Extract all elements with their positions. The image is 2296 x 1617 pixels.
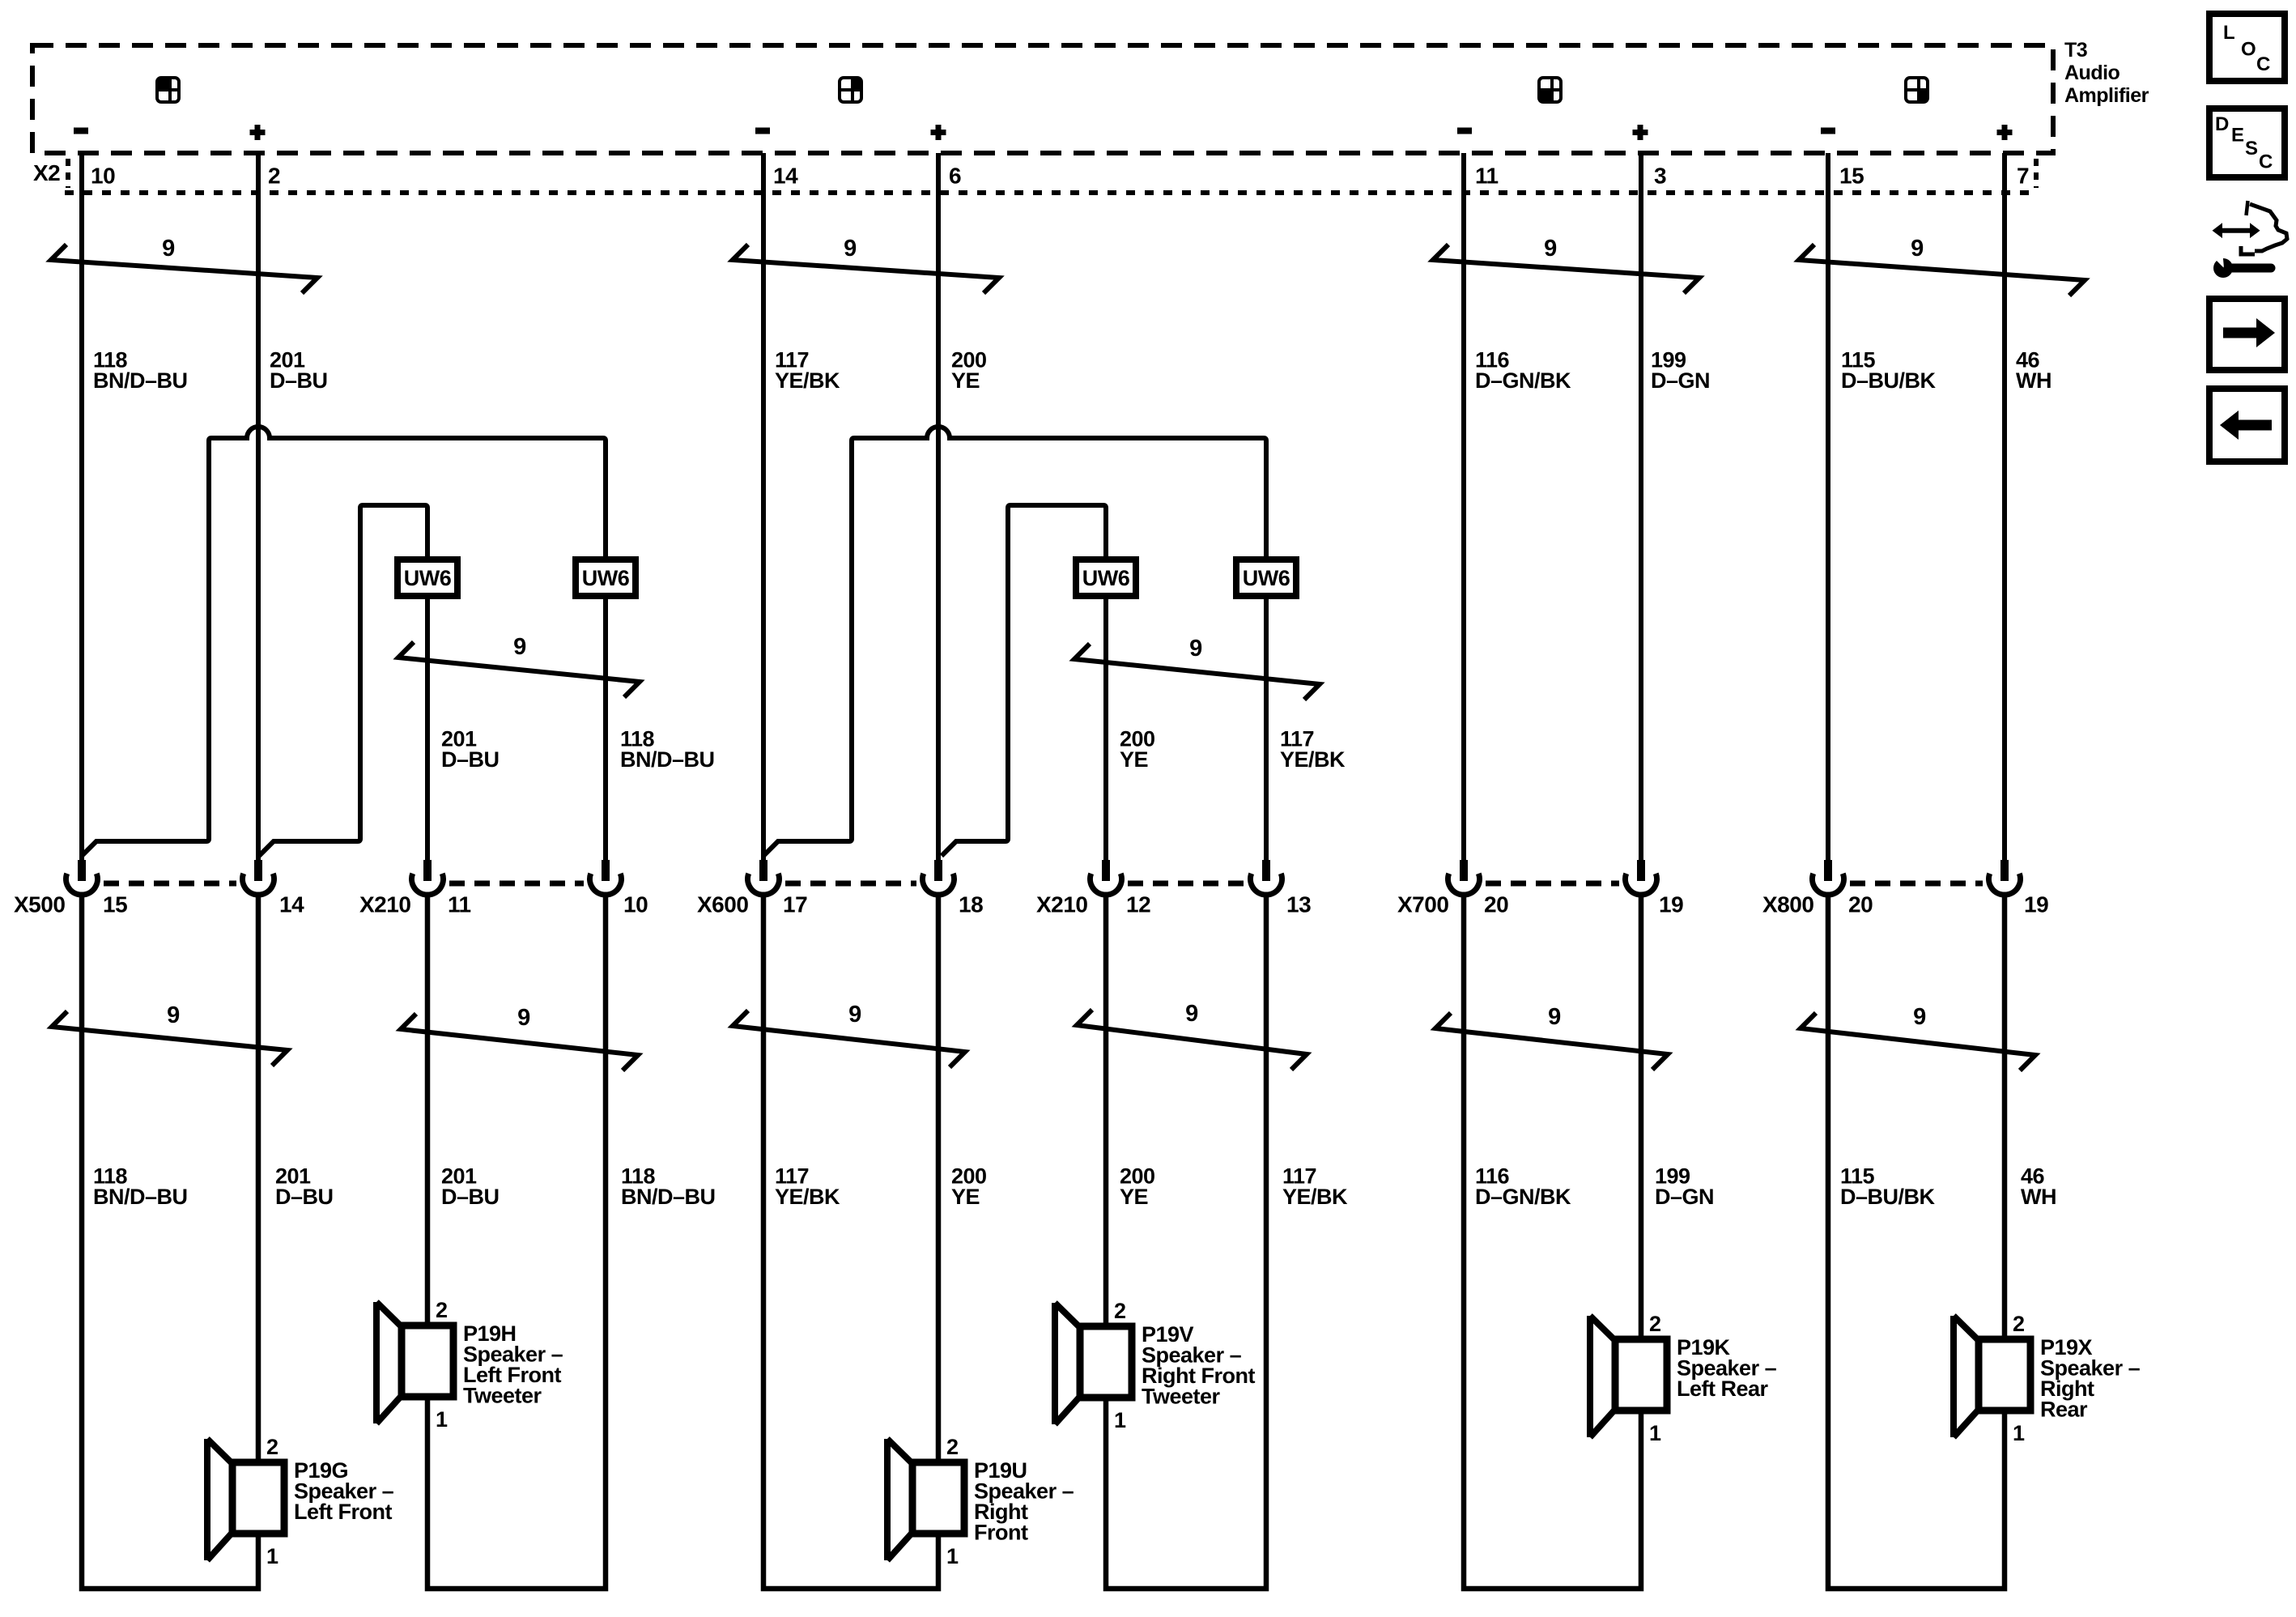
svg-text:18: 18 [959, 892, 983, 917]
wire 115 D-BU/BK from X2 pin 15 [1826, 153, 1830, 860]
svg-text:D: D [2215, 113, 2229, 135]
minus terminal LF [74, 128, 88, 134]
connector terminal X210 pin 10 [590, 860, 622, 895]
twisted pair marker 9 (X210 11/10) [401, 1005, 638, 1070]
wire label 200 YE (lower) [1120, 1164, 1155, 1210]
branch wire 117 YE/BK outer loop to UW6 (hops over 200 wire) [763, 427, 1266, 860]
svg-text:UW6: UW6 [404, 566, 452, 590]
connector terminal X800 pin 20 [1813, 860, 1844, 895]
option code box UW6 (200 YE right front tweeter wire) [1076, 560, 1136, 596]
double-headed arrow icon [2213, 223, 2260, 238]
svg-text:X210: X210 [359, 892, 410, 917]
speaker P19X name label [2040, 1335, 2141, 1422]
wire label 118 BN/D–BU (lower) [621, 1164, 716, 1210]
svg-text:BN/D–BU: BN/D–BU [93, 1185, 188, 1209]
wire 46 WH from X2 pin 7 [2002, 153, 2007, 860]
wire 117 YE/BK from X2 pin 14 [761, 153, 766, 860]
svg-text:YE/BK: YE/BK [775, 1185, 840, 1209]
svg-text:D–BU: D–BU [275, 1185, 334, 1209]
svg-text:9: 9 [1913, 1004, 1926, 1030]
wire label 117 YE/BK (lower) [1282, 1164, 1348, 1210]
connector X210 front-right dashed interface line [1128, 881, 1244, 887]
connector terminal X600 pin 17 [748, 860, 780, 895]
speaker P19U symbol [887, 1439, 964, 1560]
connector terminal X500 pin 14 [243, 860, 274, 895]
twisted pair marker 9 (UW6 right front) [1074, 636, 1320, 700]
svg-text:Audio: Audio [2064, 62, 2120, 84]
svg-text:Front: Front [974, 1521, 1028, 1545]
svg-text:20: 20 [1848, 892, 1873, 917]
wire label 201 D–BU (tweeter branch) [441, 727, 500, 772]
svg-text:D–BU: D–BU [441, 747, 500, 772]
svg-text:D–BU/BK: D–BU/BK [1840, 1185, 1936, 1209]
wire label 118 BN/D–BU (tweeter branch) [620, 727, 715, 772]
svg-text:WH: WH [2021, 1185, 2056, 1209]
svg-text:WH: WH [2016, 368, 2052, 393]
wire label 201 D–BU (lower) [441, 1164, 500, 1210]
svg-text:X800: X800 [1762, 892, 1813, 917]
svg-text:YE: YE [951, 368, 980, 393]
svg-text:BN/D–BU: BN/D–BU [93, 368, 188, 393]
speaker P19H symbol [376, 1302, 453, 1423]
wire 201 D-BU X210-11 to P19H pin 2 [425, 894, 431, 1326]
wire label 199 D–GN (lower) [1655, 1164, 1714, 1210]
svg-text:YE/BK: YE/BK [1282, 1185, 1348, 1209]
speaker P19U name label [974, 1458, 1074, 1545]
svg-text:9: 9 [1189, 636, 1202, 662]
wire label 201 D–BU (upper) [270, 348, 328, 394]
option code box UW6 (201 D-BU left front tweeter wire) [398, 560, 457, 596]
connector X700 dashed interface line [1486, 881, 1619, 887]
svg-text:D–GN: D–GN [1655, 1185, 1714, 1209]
svg-text:9: 9 [844, 236, 857, 262]
svg-text:2: 2 [1649, 1312, 1661, 1336]
minus terminal RF [755, 128, 770, 134]
twisted pair marker 9 (X2 10/2) [51, 236, 317, 293]
svg-text:9: 9 [162, 236, 175, 262]
svg-text:D–BU: D–BU [441, 1185, 500, 1209]
svg-text:YE: YE [1120, 747, 1148, 772]
connector terminal X210 pin 11 [412, 860, 444, 895]
svg-text:9: 9 [848, 1002, 861, 1028]
svg-text:Tweeter: Tweeter [1142, 1385, 1221, 1409]
wire 118 BN/D-BU X210-10 down and return to P19H pin 1 [427, 894, 606, 1589]
svg-text:E: E [2231, 125, 2244, 147]
speaker P19V name label [1142, 1322, 1255, 1409]
svg-text:2: 2 [436, 1298, 448, 1322]
branch wire 118 BN/D-BU outer loop to UW6 (hops over 201 wire) [82, 427, 606, 860]
wire label 46 WH (lower) [2021, 1164, 2056, 1210]
wire 116 D-GN/BK from X2 pin 11 [1461, 153, 1466, 860]
svg-text:7: 7 [2017, 164, 2029, 189]
svg-text:2: 2 [946, 1435, 959, 1459]
svg-text:2: 2 [1114, 1299, 1126, 1323]
minus terminal RR [1821, 128, 1835, 134]
wire 201 D-BU from X2 pin 2 [256, 153, 261, 860]
minus terminal LR [1457, 128, 1472, 134]
connector X2 dotted interface line [65, 159, 2039, 193]
wire 199 D-GN X700-19 to P19K pin 2 [1639, 894, 1644, 1339]
svg-text:17: 17 [783, 892, 807, 917]
svg-text:X600: X600 [697, 892, 748, 917]
forward arrow box [2209, 299, 2285, 370]
connector terminal X600 pin 18 [923, 860, 955, 895]
connector X500 dashed interface line [104, 881, 236, 887]
channel symbol right front (top-right quadrant filled) [840, 78, 861, 102]
svg-text:12: 12 [1126, 892, 1150, 917]
wire 117 YE/BK X600-17 down and return to P19U pin 1 [763, 894, 938, 1589]
svg-text:C: C [2259, 151, 2273, 173]
wire 116 D-GN/BK X700-20 down and return to P19K pin 1 [1464, 894, 1641, 1589]
wire label 201 D–BU (lower) [275, 1164, 334, 1210]
speaker P19X symbol [1954, 1316, 2030, 1437]
connector terminal X500 pin 15 [66, 860, 98, 895]
twisted pair marker 9 (X700 20/19) [1435, 1004, 1668, 1070]
svg-text:BN/D–BU: BN/D–BU [621, 1185, 716, 1209]
plus terminal RR [1997, 125, 2013, 140]
svg-text:1: 1 [2013, 1421, 2025, 1445]
wire 46 WH X800-19 to P19X pin 2 [2002, 894, 2008, 1339]
wire label 118 BN/D–BU (upper) [93, 348, 188, 394]
svg-text:UW6: UW6 [582, 566, 630, 590]
wire label 117 YE/BK (upper) [775, 348, 840, 394]
connector terminal X800 pin 19 [1989, 860, 2021, 895]
wire 117 YE/BK X210-13 down and return to P19V pin 1 [1106, 894, 1266, 1589]
speaker P19V symbol [1055, 1303, 1132, 1424]
svg-text:10: 10 [91, 164, 115, 189]
option code box UW6 (117 YE/BK right front tweeter wire) [1236, 560, 1296, 596]
wire label 200 YE (tweeter branch) [1120, 727, 1155, 772]
svg-text:14: 14 [279, 892, 304, 917]
svg-text:9: 9 [1548, 1004, 1561, 1030]
svg-text:15: 15 [1839, 164, 1864, 189]
option code box UW6 (118 BN/D-BU left front tweeter wire) [576, 560, 636, 596]
svg-text:YE/BK: YE/BK [1280, 747, 1346, 772]
svg-text:11: 11 [1475, 164, 1499, 189]
twisted pair marker 9 (X600 17/18) [733, 1002, 965, 1067]
twisted pair marker 9 (X2 14/6) [733, 236, 999, 293]
svg-text:1: 1 [1114, 1408, 1126, 1432]
connector terminal X210 pin 12 [1091, 860, 1122, 895]
svg-text:T3: T3 [2064, 39, 2087, 62]
connector terminal X700 pin 20 [1448, 860, 1480, 895]
svg-text:1: 1 [266, 1544, 278, 1568]
svg-text:X210: X210 [1036, 892, 1087, 917]
svg-text:Rear: Rear [2040, 1398, 2088, 1422]
wire 200 YE X210-12 to P19V pin 2 [1103, 894, 1109, 1326]
svg-text:2: 2 [2013, 1312, 2025, 1336]
wire 199 D-GN from X2 pin 3 [1639, 153, 1643, 860]
speaker P19G name label [294, 1458, 394, 1524]
plus terminal RF [931, 125, 946, 140]
wire label 118 BN/D–BU (lower) [93, 1164, 188, 1210]
wire label 116 D–GN/BK (upper) [1475, 348, 1571, 394]
wrench icon [2210, 249, 2271, 278]
svg-text:YE/BK: YE/BK [775, 368, 840, 393]
amplifier T3 name label [2064, 39, 2149, 107]
wire label 116 D–GN/BK (lower) [1475, 1164, 1571, 1210]
svg-text:9: 9 [513, 634, 526, 660]
twisted pair marker 9 (X800 20/19) [1801, 1004, 2035, 1070]
svg-text:9: 9 [1185, 1001, 1198, 1027]
wire label 46 WH (upper) [2016, 348, 2052, 394]
wire label 200 YE (upper) [951, 348, 987, 394]
svg-text:13: 13 [1286, 892, 1311, 917]
connector X600 dashed interface line [785, 881, 916, 887]
wire 201 D-BU X500-14 to P19G pin 2 [256, 894, 261, 1462]
svg-text:1: 1 [436, 1407, 448, 1432]
plus terminal LF [250, 125, 266, 140]
svg-text:19: 19 [1659, 892, 1683, 917]
connector terminal X700 pin 19 [1626, 860, 1657, 895]
wire label 117 YE/BK (tweeter branch) [1280, 727, 1346, 772]
svg-text:9: 9 [167, 1002, 180, 1028]
svg-text:2: 2 [268, 164, 280, 189]
svg-text:UW6: UW6 [1243, 566, 1290, 590]
wire label 199 D–GN (upper) [1651, 348, 1710, 394]
twisted pair marker 9 (UW6 left front) [398, 634, 640, 697]
twisted pair marker 9 (X210 12/13) [1077, 1001, 1307, 1070]
wire 118 BN/D-BU X500-15 down and return to P19G pin 1 [82, 894, 258, 1589]
svg-text:20: 20 [1484, 892, 1508, 917]
svg-text:10: 10 [623, 892, 648, 917]
svg-text:Left Rear: Left Rear [1677, 1377, 1769, 1401]
svg-text:1: 1 [946, 1544, 959, 1568]
svg-text:14: 14 [773, 164, 798, 189]
svg-text:6: 6 [949, 164, 961, 189]
svg-text:11: 11 [448, 892, 471, 917]
plus terminal LR [1633, 125, 1648, 140]
speaker P19K name label [1677, 1335, 1777, 1401]
branch wire 200 YE inner loop to UW6 [942, 505, 1106, 860]
svg-text:L: L [2223, 22, 2234, 44]
svg-text:BN/D–BU: BN/D–BU [620, 747, 715, 772]
svg-text:D–BU/BK: D–BU/BK [1841, 368, 1937, 393]
connector X210 front-left dashed interface line [449, 881, 584, 887]
svg-text:9: 9 [1544, 236, 1557, 262]
svg-text:15: 15 [103, 892, 127, 917]
svg-text:19: 19 [2024, 892, 2048, 917]
svg-text:X2: X2 [33, 160, 60, 185]
vehicle outline icon [2241, 201, 2287, 254]
back arrow box [2209, 389, 2285, 462]
svg-text:Amplifier: Amplifier [2064, 84, 2149, 107]
svg-text:9: 9 [517, 1005, 530, 1031]
speaker P19K symbol [1590, 1316, 1667, 1437]
svg-text:YE: YE [951, 1185, 980, 1209]
svg-text:D–GN/BK: D–GN/BK [1475, 1185, 1571, 1209]
wire 200 YE X600-18 to P19U pin 2 [936, 894, 942, 1462]
speaker P19H name label [463, 1321, 563, 1408]
amplifier T3 dashed outline box [32, 45, 2053, 153]
svg-text:D–GN: D–GN [1651, 368, 1710, 393]
LOC legend box [2209, 14, 2285, 81]
wire 200 YE from X2 pin 6 [936, 153, 941, 860]
svg-text:UW6: UW6 [1082, 566, 1130, 590]
svg-text:YE: YE [1120, 1185, 1148, 1209]
twisted pair marker 9 (X2 11/3) [1433, 236, 1699, 293]
channel symbol left front (top-left quadrant filled) [157, 78, 179, 102]
connector X800 dashed interface line [1850, 881, 1983, 887]
svg-text:Tweeter: Tweeter [463, 1384, 542, 1408]
twisted pair marker 9 (X2 15/7) [1799, 236, 2085, 296]
svg-text:S: S [2245, 138, 2258, 160]
svg-text:2: 2 [266, 1435, 278, 1459]
wire label 117 YE/BK (lower) [775, 1164, 840, 1210]
svg-text:O: O [2241, 39, 2256, 61]
wire label 200 YE (lower) [951, 1164, 987, 1210]
svg-text:9: 9 [1911, 236, 1924, 262]
DESC legend box [2209, 109, 2285, 177]
svg-text:C: C [2256, 53, 2270, 75]
svg-text:X700: X700 [1397, 892, 1448, 917]
svg-text:3: 3 [1654, 164, 1666, 189]
speaker P19G symbol [207, 1439, 284, 1560]
svg-text:1: 1 [1649, 1421, 1661, 1445]
channel symbol left rear (bottom-left quadrant filled) [1539, 78, 1561, 102]
wire 118 BN/D-BU from X2 pin 10 [79, 153, 84, 860]
branch wire 201 D-BU inner loop to UW6 [259, 505, 427, 860]
channel symbol right rear (bottom-right quadrant filled) [1906, 78, 1928, 102]
wire label 115 D–BU/BK (lower) [1840, 1164, 1936, 1210]
svg-text:X500: X500 [14, 892, 65, 917]
connector terminal X210 pin 13 [1251, 860, 1282, 895]
svg-text:D–BU: D–BU [270, 368, 328, 393]
twisted pair marker 9 (X500 15/14) [52, 1002, 287, 1066]
wire 115 D-BU/BK X800-20 down and return to P19X pin 1 [1828, 894, 2005, 1589]
svg-text:D–GN/BK: D–GN/BK [1475, 368, 1571, 393]
wire label 115 D–BU/BK (upper) [1841, 348, 1937, 394]
svg-text:Left Front: Left Front [294, 1500, 392, 1524]
